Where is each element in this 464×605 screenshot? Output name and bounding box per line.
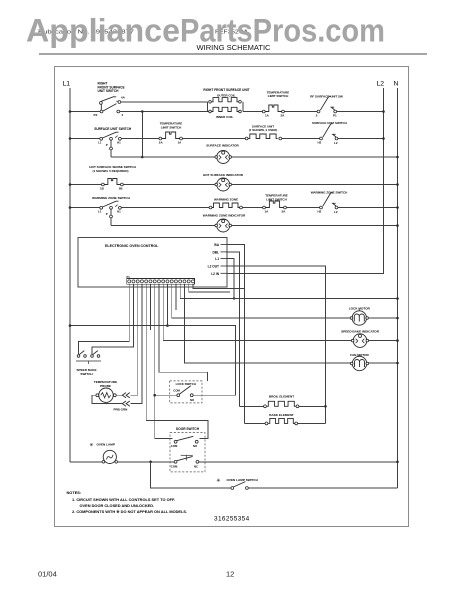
- wire harness k6 to door switch COM: [155, 284, 173, 438]
- wire harness k10 to lock motor: [172, 284, 351, 318]
- lamp surface indicator: [217, 151, 230, 164]
- wire row1 upper branch: [121, 101, 208, 103]
- svg-text:WARMING ZONE: WARMING ZONE: [214, 197, 238, 201]
- lock switch box: [170, 381, 202, 403]
- motor fan motor: [352, 356, 366, 370]
- header rule: [39, 53, 427, 55]
- wire oven lamp switch to N: [248, 487, 397, 489]
- thermal switch hot surface sense: [104, 179, 120, 185]
- svg-text:UNIT SWITCH: UNIT SWITCH: [98, 89, 120, 93]
- connector probe plug bottom: [122, 401, 130, 406]
- wire harness k8 to speed bake indicator: [163, 284, 352, 340]
- svg-text:WIRING SCHEMATIC: WIRING SCHEMATIC: [197, 45, 271, 52]
- resistor inner coil: [212, 107, 239, 111]
- svg-text:316255354: 316255354: [214, 516, 250, 523]
- svg-text:SURFACE INDICATOR: SURFACE INDICATOR: [206, 144, 239, 148]
- svg-text:SURFACE UNIT SWITCH: SURFACE UNIT SWITCH: [312, 121, 347, 125]
- svg-text:WARMING ZONE INDICATOR: WARMING ZONE INDICATOR: [203, 214, 246, 218]
- wire row1 to L2: [337, 111, 384, 113]
- svg-text:L2: L2: [377, 81, 385, 88]
- wire bake element left: [245, 422, 266, 424]
- schematic border frame: [55, 67, 409, 527]
- wire row5 to limit switch: [242, 207, 262, 209]
- door switch link: [181, 454, 193, 456]
- wire harness k7 to lock switch box: [159, 284, 208, 381]
- junction node indicator row: [141, 156, 144, 159]
- wire harness k3 to probe plug: [131, 284, 142, 403]
- wire row1 to RF switch: [284, 111, 317, 113]
- svg-text:BA: BA: [214, 243, 219, 247]
- svg-text:SWITCH: SWITCH: [80, 372, 93, 376]
- switch speed bake switch: [79, 351, 84, 355]
- wire N bus: [397, 88, 399, 488]
- svg-text:COM: COM: [173, 388, 180, 392]
- svg-text:(1 SHOWN, 5 REQUIRED): (1 SHOWN, 5 REQUIRED): [93, 169, 129, 173]
- svg-text:L2: L2: [334, 210, 338, 214]
- connector probe plug top: [122, 393, 130, 398]
- lamp warming zone indicator: [217, 219, 230, 232]
- svg-text:LIMIT SWITCH: LIMIT SWITCH: [268, 94, 289, 98]
- resistor warming zone: [212, 203, 240, 208]
- wire probe to plug: [116, 394, 122, 396]
- wire speed bake indicator to N: [368, 340, 397, 342]
- wire pin L1 to neutral row: [227, 259, 234, 299]
- junction node broil/L2OUT: [324, 405, 327, 408]
- wire harness k15 crossover: [193, 284, 245, 288]
- wire harness k11 stub: [175, 284, 177, 310]
- svg-text:PROBE: PROBE: [100, 384, 111, 388]
- junction node row1/x142: [141, 110, 144, 113]
- svg-text:L2 IN: L2 IN: [211, 272, 219, 276]
- lamp oven lamp: [103, 450, 116, 463]
- svg-text:H2: H2: [318, 140, 322, 144]
- wire broil element left: [240, 405, 264, 407]
- wire pin L2 OUT to elements: [227, 266, 326, 423]
- wire row5 P stub: [110, 209, 112, 215]
- switch lock switch: [180, 386, 191, 394]
- svg-text:✳: ✳: [216, 478, 220, 484]
- wire row5 to warming zone: [121, 207, 209, 209]
- electronic oven control box: [78, 237, 227, 287]
- wire row2 to right switch: [282, 138, 320, 140]
- switch oven lamp switch: [234, 482, 246, 487]
- svg-text:INNER COIL: INNER COIL: [216, 115, 234, 119]
- wire bake element right: [298, 422, 326, 424]
- wire harness k9 to L1 feed line: [166, 284, 168, 325]
- wire warming zone indicator row: [111, 225, 216, 227]
- wire L1 feed to lock switch NO: [70, 326, 236, 396]
- svg-text:N: N: [394, 81, 399, 88]
- wire row5 L1 to switch: [70, 207, 100, 209]
- svg-text:P: P: [106, 212, 108, 216]
- wire surface indicator row: [111, 156, 216, 158]
- wire harness k14 stub: [189, 284, 230, 292]
- svg-text:H2: H2: [318, 209, 322, 213]
- svg-text:2. COMPONENTS WITH ✳ DO NOT: 2. COMPONENTS WITH ✳ DO NOT APPEAR ON AL…: [72, 509, 187, 514]
- svg-text:4: 4: [122, 113, 124, 117]
- svg-text:✳: ✳: [89, 443, 93, 449]
- svg-text:OVEN DOOR CLOSED AND UNLOCKED.: OVEN DOOR CLOSED AND UNLOCKED.: [80, 503, 155, 508]
- svg-text:LOCK SWITCH: LOCK SWITCH: [176, 382, 196, 386]
- wire lock motor to N: [368, 317, 397, 319]
- lamp speed bake indicator: [353, 334, 367, 348]
- svg-text:L2: L2: [334, 141, 338, 145]
- svg-text:PartsPros.com: PartsPros.com: [180, 13, 385, 49]
- wire surface indicator to N: [231, 156, 398, 158]
- svg-text:H1: H1: [117, 209, 121, 213]
- svg-text:RIGHT FRONT SURFACE UNIT: RIGHT FRONT SURFACE UNIT: [203, 88, 249, 92]
- svg-text:OUTER COIL: OUTER COIL: [217, 93, 236, 97]
- svg-text:WARMING ZONE SWITCH: WARMING ZONE SWITCH: [92, 196, 131, 200]
- svg-text:COM: COM: [171, 444, 178, 448]
- svg-text:L1: L1: [98, 209, 102, 213]
- wire row5 to right switch: [286, 207, 319, 209]
- wire door switch to N: [199, 461, 398, 463]
- svg-text:L1: L1: [98, 140, 102, 144]
- switch right front surface unit switch: [100, 104, 102, 110]
- lamp hot surface indicator: [217, 178, 230, 191]
- wire harness k13 to fan motor: [184, 284, 351, 363]
- svg-text:HOT SURFACE INDICATOR: HOT SURFACE INDICATOR: [203, 173, 244, 177]
- svg-text:(1 SHOWN, 4 USED): (1 SHOWN, 4 USED): [249, 128, 278, 132]
- wire row1 coils to limit switch: [243, 111, 262, 113]
- svg-text:ELECTRONIC OVEN CONTROL: ELECTRONIC OVEN CONTROL: [105, 244, 159, 248]
- svg-text:WARMING ZONE SWITCH: WARMING ZONE SWITCH: [311, 190, 348, 194]
- svg-text:RF SURFACE UNIT SW: RF SURFACE UNIT SW: [310, 94, 343, 98]
- svg-text:BROIL ELEMENT: BROIL ELEMENT: [269, 395, 294, 399]
- junction node lamp circuit: [149, 461, 152, 464]
- resistor broil element: [267, 401, 296, 406]
- svg-text:L2 OUT: L2 OUT: [208, 265, 219, 269]
- svg-text:SURFACE UNIT SWITCH: SURFACE UNIT SWITCH: [94, 127, 132, 131]
- wire oven lamp to door switch: [118, 461, 175, 463]
- wire row4 to lamp: [123, 184, 215, 186]
- svg-text:H1: H1: [117, 140, 121, 144]
- svg-text:DOOR SWITCH: DOOR SWITCH: [176, 427, 200, 431]
- motor lock motor: [352, 311, 366, 325]
- wire lock switch feed: [155, 394, 177, 396]
- resistor temperature probe: [99, 388, 113, 402]
- svg-text:L1: L1: [215, 257, 219, 261]
- wire pin DBL to broil element: [227, 252, 240, 406]
- svg-text:01/04: 01/04: [38, 570, 57, 579]
- junction node lock switch tap: [153, 394, 156, 397]
- svg-text:BAKE ELEMENT: BAKE ELEMENT: [269, 413, 294, 417]
- svg-text:COM: COM: [171, 465, 178, 469]
- resistor bake element: [268, 418, 295, 423]
- wire oven lamp switch branch: [151, 462, 231, 488]
- wire row2 to limit switch: [121, 138, 159, 140]
- svg-text:P: P: [106, 143, 108, 147]
- wire harness k1 to speed bake switch: [92, 284, 133, 354]
- wire probe return loop: [92, 395, 122, 403]
- wire row4 to N: [231, 184, 398, 186]
- wire broil element right: [299, 405, 326, 407]
- wire vertical x142 row1 to indicator row: [141, 112, 143, 158]
- wire row2 switch P stub to indicator row: [110, 140, 112, 147]
- wire row1 lower branch: [120, 111, 212, 113]
- switch door switch upper: [177, 436, 193, 440]
- wire harness k5 stub: [149, 284, 151, 330]
- wire pin BA to bake element: [227, 245, 245, 424]
- svg-text:SPEED BAKE INDICATOR: SPEED BAKE INDICATOR: [341, 329, 380, 333]
- door switch box: [170, 433, 205, 472]
- wire row2 to L2: [338, 138, 384, 140]
- wire L2 bus: [227, 88, 384, 273]
- wire harness k12 to neutral: [180, 284, 397, 298]
- svg-text:L1: L1: [63, 81, 71, 88]
- svg-text:P1: P1: [333, 113, 337, 117]
- wire row5 to N: [338, 207, 398, 209]
- svg-text:P2: P2: [94, 113, 98, 117]
- resistor outer coil: [207, 102, 209, 112]
- wire oven lamp row from L1: [70, 461, 103, 463]
- wire warming zone indicator to N: [231, 225, 398, 227]
- svg-text:1. CIRCUIT SHOWN WITH ALL CON: 1. CIRCUIT SHOWN WITH ALL CONTROLS SET T…: [72, 497, 175, 502]
- wire row2 to surface unit: [182, 138, 245, 140]
- wire fan motor to N: [368, 362, 397, 364]
- wire row2 L1 to switch: [70, 138, 100, 140]
- wire row1 L1 to switch: [70, 111, 100, 113]
- svg-text:PRB GRN: PRB GRN: [114, 408, 128, 412]
- wire harness k2 to probe plug: [131, 284, 138, 395]
- svg-text:OVEN LAMP: OVEN LAMP: [97, 443, 115, 447]
- svg-text:OVEN LAMP SWITCH: OVEN LAMP SWITCH: [227, 478, 259, 482]
- svg-text:NOTES:: NOTES:: [67, 490, 82, 495]
- svg-text:12: 12: [226, 570, 234, 579]
- switch door switch lower: [177, 456, 193, 460]
- wire L1 bus: [69, 88, 71, 462]
- wire harness k4 to door switch NO: [146, 284, 208, 438]
- svg-text:Appliance: Appliance: [26, 13, 180, 49]
- wire harness k0 to speed bake switch: [79, 284, 130, 354]
- svg-text:NC: NC: [194, 465, 198, 469]
- svg-text:DBL: DBL: [212, 250, 219, 254]
- wire row4 L1 to sense switch: [70, 184, 102, 186]
- svg-text:LIMIT SWITCH: LIMIT SWITCH: [161, 125, 182, 129]
